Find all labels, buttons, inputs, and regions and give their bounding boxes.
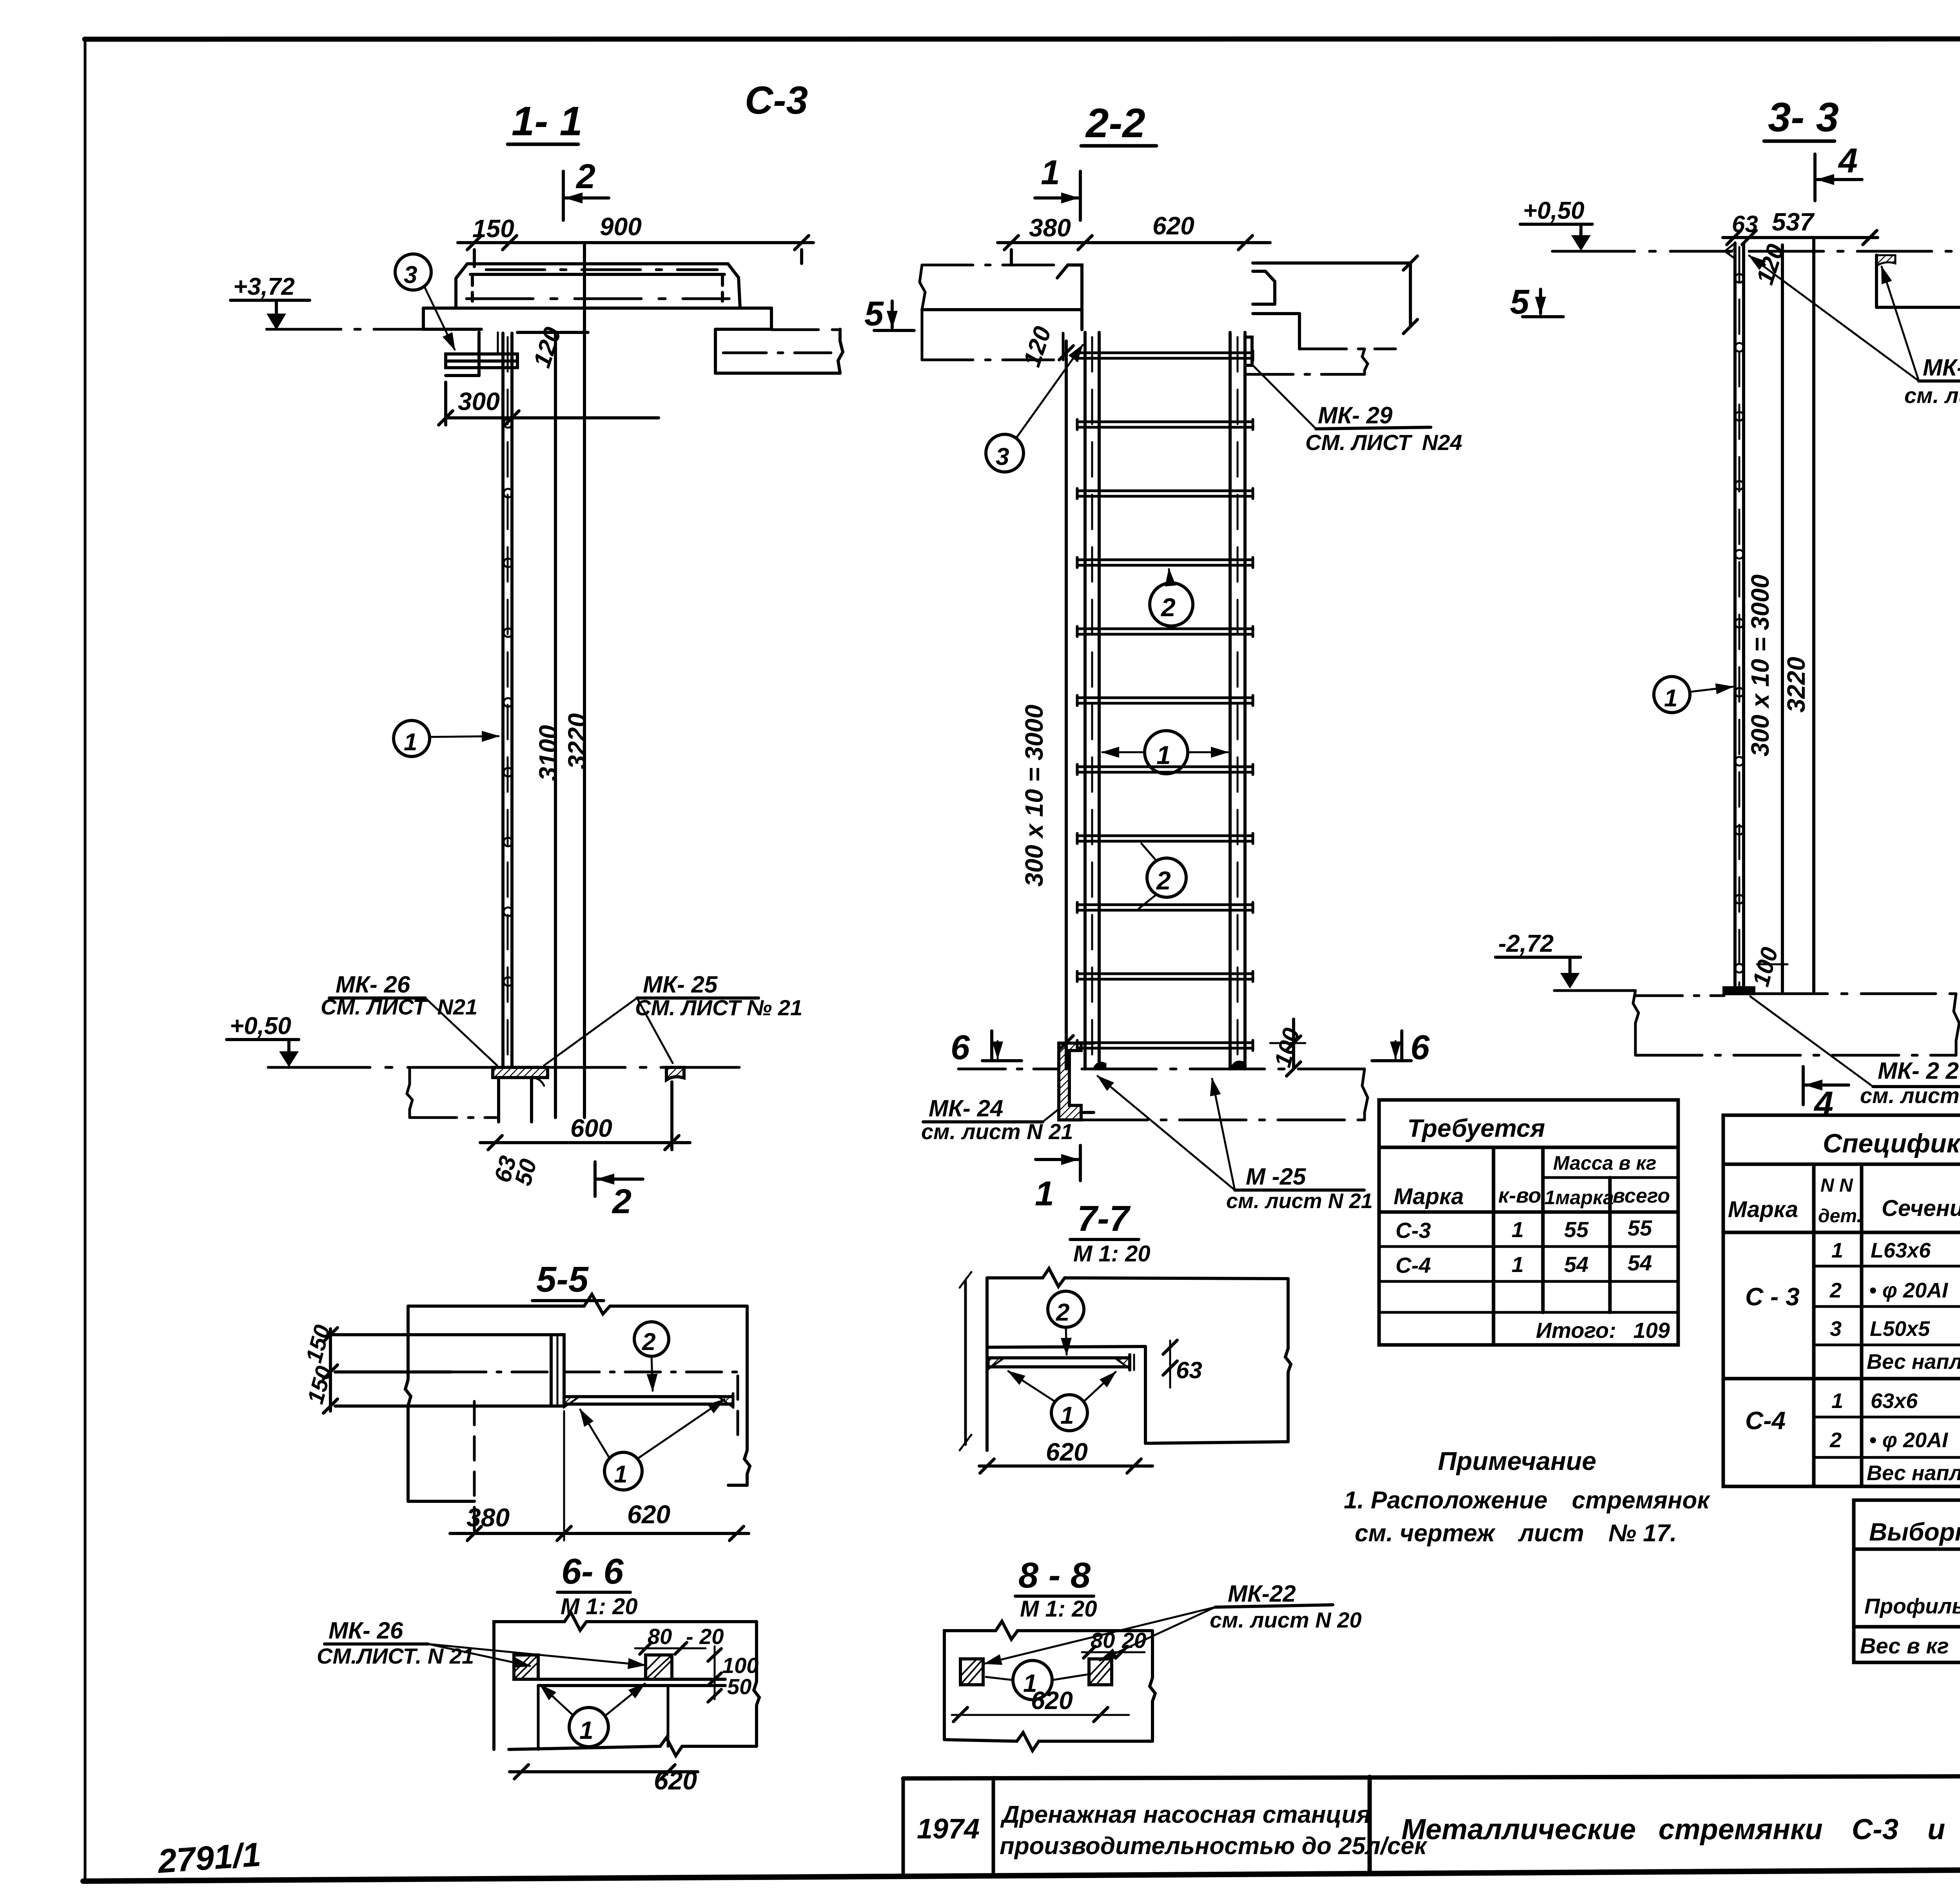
svg-text:380: 380 (1029, 214, 1071, 242)
level mark -2,72 (1495, 930, 1581, 989)
dim 120 right rotated (1018, 323, 1057, 370)
svg-text:С-4: С-4 (1745, 1406, 1786, 1435)
svg-text:620: 620 (654, 1766, 697, 1795)
detail title 8-8 (1018, 1555, 1097, 1622)
svg-text:Вес наплавленного металла: Вес наплавленного металла (1867, 1350, 1960, 1374)
svg-text:620: 620 (627, 1500, 670, 1529)
svg-text:3100: 3100 (534, 725, 562, 781)
callout circle 3 (2-2) (986, 345, 1083, 472)
svg-text:Марка: Марка (1728, 1197, 1798, 1222)
dim verticals 300x10=3000 / 3220 (3-3) (1746, 238, 1814, 991)
6-6 right anchor (646, 1655, 672, 1679)
svg-text:537: 537 (1772, 208, 1815, 236)
svg-text:1: 1 (579, 1716, 593, 1744)
svg-text:• φ 20АI: • φ 20АI (1869, 1428, 1948, 1452)
svg-text:2791/1: 2791/1 (156, 1836, 262, 1880)
8-8 callout circle 1 (986, 1660, 1087, 1700)
dim 120 rotated (3-3) (1751, 241, 1790, 288)
view title 2-2 (1085, 100, 1145, 146)
svg-text:1марка: 1марка (1544, 1187, 1614, 1208)
dim 100 rotated (3-3) (1748, 944, 1788, 989)
svg-text:С-3: С-3 (1396, 1218, 1431, 1243)
floor line bottom 3-3 (1554, 991, 1959, 1055)
svg-text:3: 3 (404, 261, 417, 289)
svg-text:2: 2 (1829, 1428, 1842, 1452)
svg-text:63: 63 (1732, 211, 1758, 237)
svg-text:3220: 3220 (1782, 657, 1810, 713)
dim 63 50 bottom rotated (489, 1153, 542, 1189)
6-6 dim 100 / 50 (708, 1646, 759, 1702)
svg-text:3- 3: 3- 3 (1768, 94, 1839, 140)
label MK-22 (3-3) (1750, 996, 1960, 1108)
label MK-24 (921, 1095, 1073, 1144)
svg-text:МК- 2 2: МК- 2 2 (1878, 1058, 1959, 1084)
section marker 1 bottom (1035, 1145, 1080, 1213)
level mark +3,72 (230, 273, 310, 330)
svg-text:2: 2 (575, 157, 595, 196)
svg-text:620: 620 (1046, 1438, 1088, 1466)
svg-text:300 x 10 = 3000: 300 x 10 = 3000 (1746, 575, 1774, 757)
svg-text:120: 120 (1018, 323, 1057, 370)
dim line 150 / 900 (458, 212, 813, 267)
7-7 outer wall face line with break marks (960, 1272, 971, 1450)
label MK-22 (8-8) (985, 1580, 1362, 1664)
corbel below floor right of 3-3 (1877, 251, 1960, 307)
svg-text:Профиль: Профиль (1864, 1594, 1960, 1618)
svg-text:8 - 8: 8 - 8 (1018, 1555, 1091, 1595)
svg-text:55: 55 (1628, 1216, 1652, 1240)
svg-text:N N: N N (1820, 1175, 1853, 1196)
svg-text:1: 1 (404, 729, 417, 756)
svg-text:-2,72: -2,72 (1498, 930, 1553, 957)
section marker 6 right (1372, 1028, 1430, 1067)
svg-text:620: 620 (1152, 212, 1194, 240)
svg-text:МК- 24: МК- 24 (929, 1095, 1003, 1121)
svg-text:620: 620 (1031, 1686, 1073, 1715)
view title 1-1 (512, 98, 583, 144)
label MK-25 (3-3) (1749, 256, 1960, 408)
svg-text:5-5: 5-5 (536, 1259, 589, 1299)
label MK-26 (6-6) (317, 1617, 645, 1668)
TABLE Требуется (1379, 1100, 1678, 1345)
callout circle 3 (395, 254, 455, 350)
svg-text:МК-22: МК-22 (1228, 1580, 1296, 1607)
bottom shoe MK-24 (channel, hatched) (1059, 1043, 1094, 1120)
7-7 dim 620 (979, 1438, 1152, 1473)
section marker 6 left (951, 1028, 1022, 1067)
svg-text:Спецификация металла В Ст.3 к: Спецификация металла В Ст.3 кп 2 (1823, 1129, 1960, 1158)
dim 120 at stringer top (517, 324, 588, 371)
title underline (1081, 144, 1156, 148)
svg-text:см. лист N 21: см. лист N 21 (1226, 1189, 1373, 1213)
svg-text:1974: 1974 (917, 1813, 980, 1845)
svg-text:см. лист №21: см. лист №21 (1904, 383, 1960, 408)
5-5 upper slab edges (333, 1335, 738, 1442)
label MK-29 (1253, 365, 1462, 455)
section marker 5 down (left of 2-2) (864, 294, 914, 333)
svg-text:+3,72: +3,72 (233, 273, 295, 300)
svg-text:см. лист N 20: см. лист N 20 (1210, 1608, 1362, 1632)
dim 600 bottom (480, 1082, 690, 1150)
svg-text:L63x6: L63x6 (1871, 1239, 1931, 1262)
anchor MK-25 right (hatched) (666, 1067, 684, 1080)
mark label C-3 (745, 78, 808, 122)
svg-text:Вес в кг: Вес в кг (1860, 1633, 1949, 1658)
handwritten archive number 2791/1 (156, 1836, 262, 1880)
7-7 callout circle 1 (1008, 1371, 1116, 1431)
svg-text:L50x5: L50x5 (1870, 1317, 1930, 1341)
svg-text:3: 3 (1830, 1317, 1842, 1341)
TABLE Спецификация металла (1723, 1115, 1960, 1486)
svg-text:+0,50: +0,50 (230, 1013, 291, 1040)
svg-text:МК- 29: МК- 29 (1318, 402, 1393, 428)
stringer base plate 3-3 (1724, 988, 1754, 994)
svg-text:см. чертеж лист № 17.: см. чертеж лист № 17. (1355, 1520, 1677, 1547)
svg-text:+0,50: +0,50 (1523, 197, 1584, 224)
svg-text:• φ 20АI: • φ 20АI (1869, 1279, 1948, 1302)
svg-text:Примечание: Примечание (1438, 1446, 1596, 1475)
rail feet weld marks (1094, 1062, 1245, 1069)
svg-text:3220: 3220 (563, 713, 591, 769)
dim 300 (439, 382, 659, 425)
svg-text:Итого: 109: Итого: 109 (1536, 1318, 1670, 1343)
title block sheet name (1401, 1813, 1960, 1845)
svg-text:2: 2 (1056, 1299, 1069, 1326)
svg-text:3: 3 (996, 443, 1009, 470)
Спецификация data rows (1745, 1237, 1960, 1485)
ladder stringer C-3 (side view) (503, 333, 512, 1067)
svg-text:2: 2 (642, 1328, 655, 1355)
concrete cap beam (plan band) (456, 264, 740, 308)
6-6 dim 620 (510, 1765, 698, 1795)
svg-text:6: 6 (951, 1028, 970, 1067)
section marker 1 top (1035, 153, 1080, 220)
label M-25 (1098, 1076, 1373, 1213)
svg-text:Марка: Марка (1394, 1184, 1464, 1209)
8-8 dim 620 (952, 1686, 1129, 1722)
detail title 7-7 (1073, 1199, 1151, 1267)
slab below floor 2-2 (1081, 1069, 1368, 1120)
level mark +0,50 (3-3) (1520, 197, 1592, 251)
7-7 callout circle 2 (1048, 1291, 1084, 1355)
svg-text:2-2: 2-2 (1085, 100, 1145, 146)
dim vertical 3100 (534, 332, 562, 1118)
7-7 wall outline (plan, stepped) (987, 1268, 1291, 1450)
5-5 callout circle 1 (580, 1399, 724, 1490)
detail title 6-6 (561, 1551, 638, 1619)
svg-text:1: 1 (1664, 685, 1677, 712)
section marker 4 bottom (1803, 1067, 1849, 1123)
svg-text:СМ. ЛИСТ N24: СМ. ЛИСТ N24 (1305, 430, 1462, 455)
svg-text:С-4: С-4 (1396, 1253, 1431, 1277)
callout circle 2 lower (1139, 844, 1186, 909)
5-5 rung (plan) (564, 1394, 733, 1407)
svg-text:1: 1 (1156, 740, 1171, 769)
title underline (508, 143, 578, 146)
mark label C-4 (1958, 82, 1960, 126)
svg-text:Металлические стремянки С-3: Металлические стремянки С-3 и С-4 (1401, 1813, 1960, 1845)
level mark +0,50 left (227, 1013, 299, 1067)
svg-text:1: 1 (1512, 1217, 1524, 1242)
6-6 slab outline (494, 1612, 759, 1756)
5-5 callout circle 2 (634, 1322, 669, 1391)
wall below bottom floor (407, 1067, 532, 1122)
svg-text:5: 5 (864, 294, 884, 333)
ladder stringers 2-2 (1085, 332, 1245, 1069)
svg-text:6- 6: 6- 6 (561, 1551, 624, 1591)
8-8 left stringer section (960, 1659, 983, 1685)
svg-text:2: 2 (1160, 593, 1176, 622)
7-7 dim 63 (1163, 1340, 1202, 1388)
svg-text:Масса в кг: Масса в кг (1553, 1152, 1657, 1174)
Требуется texts (1394, 1114, 1670, 1343)
left slab 2-2 (920, 265, 1082, 360)
stringer holes 3-3 (1735, 274, 1744, 973)
svg-text:Требуется: Требуется (1407, 1114, 1545, 1142)
svg-text:- 20: - 20 (686, 1624, 724, 1649)
stringer base plate (hatched) (493, 1067, 548, 1086)
TITLE BLOCK (903, 1775, 1960, 1874)
svg-text:производительностью до 25л/сек: производительностью до 25л/сек (1000, 1833, 1428, 1860)
svg-text:900: 900 (600, 212, 642, 241)
slab band under cap (423, 308, 771, 329)
section marker 5 down (left of 3-3) (1510, 282, 1563, 321)
stringer C-4 (side view) (1725, 243, 1744, 991)
wall below floor left of rail (446, 332, 479, 376)
6-6 left anchor (514, 1655, 538, 1679)
svg-text:М 1: 20: М 1: 20 (1020, 1596, 1097, 1622)
svg-text:Выборка металла по профилям: Выборка металла по профилям и диаметрам (1869, 1518, 1960, 1546)
rungs 2-2 (11 pcs) (1077, 350, 1253, 1051)
stringer bolt holes (504, 419, 512, 986)
dim 300x10=3000 vertical (1020, 341, 1073, 1069)
callout circle 1 (rung width) (1102, 731, 1228, 774)
right slab 2-2 (1246, 256, 1417, 374)
svg-text:МК- 26: МК- 26 (328, 1617, 403, 1644)
svg-text:2: 2 (1156, 866, 1171, 895)
support bracket detail 3 (plate) (446, 332, 517, 368)
title block year (917, 1813, 980, 1845)
svg-text:7-7: 7-7 (1077, 1199, 1131, 1239)
svg-text:МК- 25: МК- 25 (643, 971, 718, 998)
section marker 2 top (563, 157, 609, 220)
svg-text:1. Расположение стремянок: 1. Расположение стремянок (1344, 1487, 1710, 1514)
svg-text:600: 600 (570, 1114, 612, 1142)
svg-text:80: 80 (648, 1624, 672, 1649)
dim line 380 / 620 top (998, 212, 1270, 265)
svg-text:всего: всего (1613, 1185, 1670, 1207)
svg-text:Дренажная насосная станция: Дренажная насосная станция (1000, 1801, 1371, 1828)
svg-text:1: 1 (1512, 1252, 1524, 1277)
svg-text:55: 55 (1564, 1217, 1589, 1242)
MK-29 plate on right stringer (1245, 337, 1252, 365)
label MK-26 (321, 971, 497, 1065)
svg-text:2: 2 (1829, 1279, 1842, 1302)
label MK-25 (544, 971, 802, 1065)
svg-text:МК- 25: МК- 25 (1923, 354, 1960, 381)
Спецификация header texts (1728, 1129, 1960, 1230)
svg-text:Вес наплавленного металла: Вес наплавленного металла (1867, 1461, 1960, 1485)
5-5 dim 380 / 620 (450, 1401, 749, 1541)
view title 3-3 (1768, 94, 1839, 140)
floor level line +3,72 (267, 329, 842, 330)
svg-text:1: 1 (1035, 1174, 1054, 1213)
8-8 slab outline (944, 1621, 1155, 1751)
section marker 2 bottom (595, 1162, 643, 1221)
6-6 callout circle 1 (540, 1684, 645, 1747)
dim 63 / 537 top (1723, 208, 1878, 245)
Выборка texts (1860, 1518, 1960, 1658)
svg-text:63: 63 (1176, 1357, 1202, 1383)
svg-text:63x6: 63x6 (1871, 1389, 1918, 1413)
svg-text:300 x 10 = 3000: 300 x 10 = 3000 (1020, 705, 1048, 887)
callout circle 1 (3-3) (1654, 677, 1733, 713)
dim 100 bottom right (1269, 1019, 1305, 1076)
svg-text:50: 50 (727, 1674, 751, 1699)
title underline (1764, 140, 1835, 143)
floor line top 3-3 (1552, 250, 1960, 253)
callout circle 2 upper (rung spacing) (1150, 569, 1193, 627)
svg-text:150: 150 (472, 214, 514, 243)
svg-text:СМ.ЛИСТ. N 21: СМ.ЛИСТ. N 21 (317, 1644, 474, 1668)
title block project name (1000, 1801, 1428, 1860)
svg-text:М 1: 20: М 1: 20 (1073, 1241, 1151, 1267)
svg-text:54: 54 (1564, 1252, 1588, 1277)
8-8 right stringer section (1089, 1659, 1112, 1685)
5-5 dims 150 150 (301, 1322, 338, 1413)
TABLE Выборка металла (1854, 1500, 1960, 1662)
svg-text:1: 1 (1060, 1402, 1074, 1429)
svg-text:300: 300 (458, 387, 500, 416)
detail title 5-5 (536, 1259, 589, 1299)
6-6 bracket plate (538, 1679, 725, 1749)
svg-text:4: 4 (1838, 141, 1858, 180)
svg-text:1: 1 (614, 1461, 627, 1488)
section marker 4 top (1815, 141, 1862, 201)
svg-text:1: 1 (1041, 153, 1060, 192)
svg-text:54: 54 (1628, 1250, 1652, 1275)
floor line bottom (+0,50) (268, 1066, 745, 1069)
svg-text:1: 1 (1831, 1239, 1843, 1262)
svg-text:4: 4 (1813, 1084, 1833, 1123)
svg-text:380: 380 (466, 1503, 510, 1532)
5-5 outer slab outline (405, 1294, 750, 1501)
svg-text:1- 1: 1- 1 (512, 98, 583, 144)
svg-text:дет.: дет. (1818, 1206, 1862, 1227)
svg-text:1: 1 (1831, 1389, 1843, 1413)
note Примечание (1344, 1446, 1710, 1547)
svg-text:МК- 26: МК- 26 (336, 971, 410, 998)
callout circle 1 (394, 720, 499, 757)
svg-text:C-4: C-4 (1958, 82, 1960, 126)
5-5 stringer plate (plan) (551, 1335, 564, 1406)
svg-text:100: 100 (1748, 944, 1783, 989)
svg-text:2: 2 (612, 1182, 632, 1221)
floor line bottom 2-2 (958, 1068, 1364, 1071)
svg-text:С - 3: С - 3 (1745, 1283, 1800, 1311)
svg-text:к-во: к-во (1498, 1184, 1541, 1207)
6-6 dim 80 - 20 (635, 1624, 724, 1654)
svg-text:C-3: C-3 (745, 78, 808, 122)
dim vertical 3220 (563, 243, 591, 1118)
slab below floor right (715, 329, 843, 373)
svg-text:М -25: М -25 (1246, 1163, 1307, 1190)
svg-text:6: 6 (1410, 1028, 1430, 1067)
7-7 rung (plan) (989, 1355, 1134, 1370)
8-8 dim 80 20 (1082, 1628, 1146, 1658)
svg-text:Сечение: Сечение (1882, 1196, 1960, 1221)
